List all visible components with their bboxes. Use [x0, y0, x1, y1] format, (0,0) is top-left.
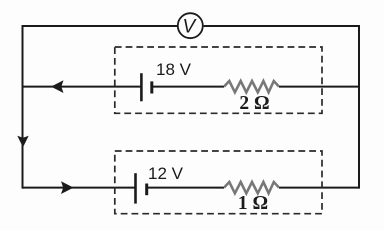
resistor 1 ohm zigzag	[224, 182, 279, 193]
wire left vertical	[22, 25, 24, 189]
wire bottom branch left	[23, 187, 136, 189]
wire top-right segment	[204, 25, 359, 27]
svg-text:1 Ω: 1 Ω	[238, 193, 268, 214]
battery B2 long plate	[134, 173, 137, 203]
svg-text:12 V: 12 V	[148, 164, 184, 183]
wire top-left segment	[23, 25, 178, 26]
battery B2 short plate	[145, 184, 148, 196]
wire right vertical	[358, 25, 360, 189]
wire middle branch right	[279, 86, 359, 88]
voltmeter V1 circle	[178, 13, 203, 38]
battery B1 long plate	[140, 73, 143, 101]
dashed box (top, 18V source)	[115, 47, 322, 113]
wire bottom branch center	[148, 187, 224, 189]
wire middle branch left	[23, 86, 142, 88]
current arrow down (left vertical)	[17, 136, 28, 148]
current arrow right (bottom branch)	[61, 181, 74, 194]
battery B1 short plate	[150, 81, 153, 93]
wire bottom branch right	[279, 187, 359, 189]
dashed box (bottom, 12V source)	[115, 151, 322, 214]
wire middle branch center	[153, 86, 224, 88]
svg-text:2 Ω: 2 Ω	[239, 93, 269, 114]
current arrow left (middle branch)	[51, 80, 64, 93]
svg-text:18 V: 18 V	[156, 60, 192, 79]
resistor 2 ohm zigzag	[224, 81, 279, 92]
